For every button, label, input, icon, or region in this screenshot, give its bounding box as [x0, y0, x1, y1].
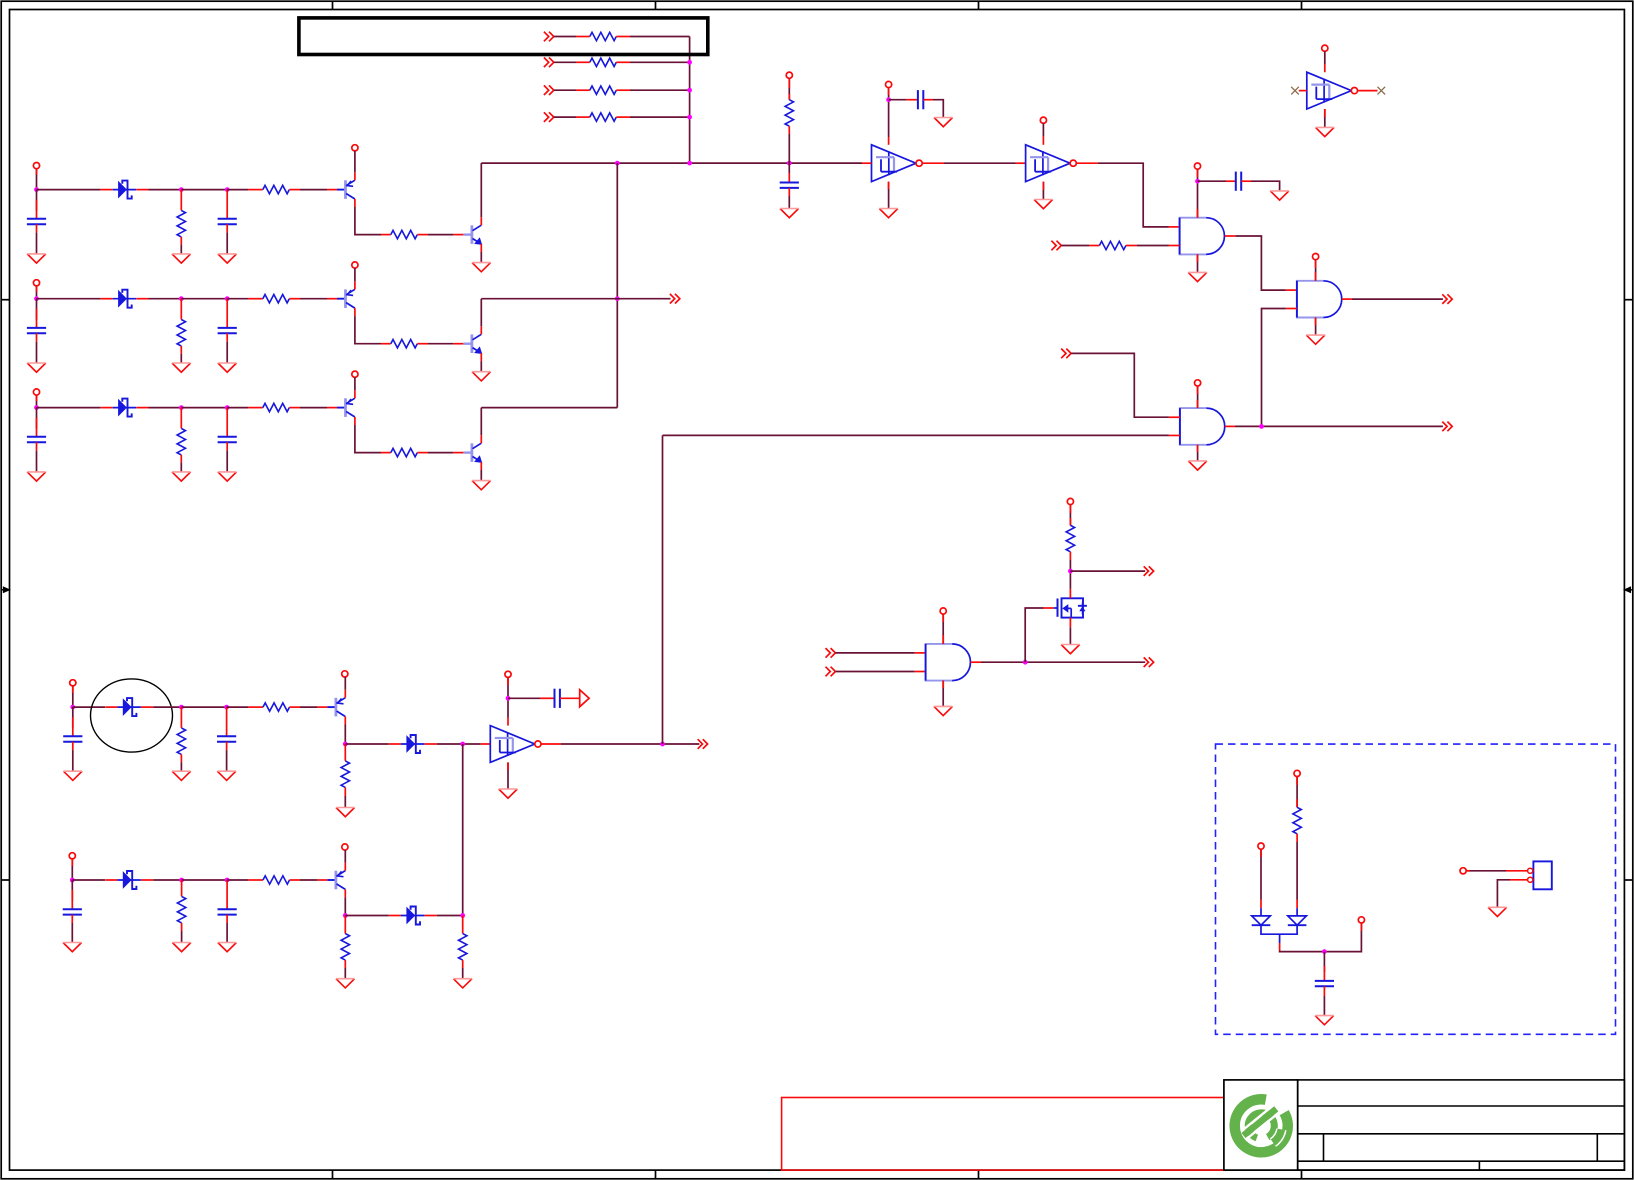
- wire Q3a emitter to power: [354, 377, 356, 390]
- net port output drain node: [1144, 566, 1154, 576]
- wire stage5 diode to node2: [153, 879, 181, 881]
- wire stage4 diode to node2: [153, 706, 181, 708]
- junction stage4 node2: [179, 705, 184, 710]
- wire stage3 power to line: [36, 395, 38, 408]
- wire stage4 series resistor to Q4 base: [300, 706, 317, 708]
- wire stage5 node down to cap: [71, 880, 73, 901]
- buffer U3 (schmitt): [490, 726, 541, 763]
- resistor R (stage1 base2): [391, 230, 418, 238]
- wire stage4 node3 to series resistor: [227, 706, 248, 708]
- resistor R (G1 pin2 series): [1099, 241, 1126, 249]
- wire stage1 input node down to cap: [36, 190, 38, 211]
- transistor Q6 (MOSFET): [1054, 589, 1087, 627]
- power port transistor Q1a: [352, 145, 358, 151]
- dashed option box: [1216, 744, 1616, 1034]
- capacitor C2 (stage3): [218, 437, 237, 442]
- zone tick left 1: [1, 299, 9, 301]
- zone tick bottom 1: [332, 1170, 334, 1179]
- power port G4: [940, 608, 946, 614]
- wire box power to resistor: [1296, 777, 1298, 808]
- wire pull-up resistor to main node: [788, 134, 790, 163]
- capacitor C (stage3 input): [27, 437, 46, 442]
- zone tick bottom 3: [978, 1170, 980, 1179]
- schottky diode D2 (stage4): [389, 735, 437, 753]
- wire G1 power node to cap: [1198, 180, 1227, 182]
- junction stage5 output node: [460, 913, 465, 918]
- wire stage1 node3 down to cap2: [226, 190, 228, 219]
- power port buffer U3: [505, 671, 511, 677]
- wire Q3b emitter to ground: [480, 470, 482, 481]
- capacitor C (G1 bypass): [1236, 172, 1241, 191]
- net port input G4 pin2: [826, 667, 836, 677]
- power port box resistor: [1294, 770, 1300, 776]
- logo graphic: [1235, 1099, 1288, 1152]
- resistor R (stage2 shunt): [180, 299, 182, 320]
- junction stage2 node2: [179, 296, 184, 301]
- wire stage4 D2 to buffer node: [437, 743, 481, 745]
- ground (stage2 cap2): [218, 363, 237, 372]
- centre arrow right edge: [1625, 587, 1633, 592]
- wire G3 power pin: [1197, 386, 1199, 408]
- wire stage1 node2 segment: [181, 189, 227, 191]
- power port buffer U4: [1322, 45, 1328, 51]
- wire stage2 input node down to cap: [36, 299, 38, 320]
- net port output U3: [698, 739, 708, 749]
- zone tick top 3: [978, 1, 980, 9]
- wire stage5 shunt resistor to ground: [181, 931, 183, 943]
- net port input arrow row2: [544, 58, 554, 68]
- wire stage5 series resistor to Q5 base: [300, 879, 317, 881]
- resistor R2 (input bank): [590, 58, 617, 66]
- wire Q2a emitter to power: [354, 268, 356, 281]
- wire Q2a collector down and right: [355, 316, 381, 344]
- wire stage5 cap2 to ground: [226, 923, 228, 943]
- wire G3 pin2 long from buffer node: [663, 434, 1169, 436]
- resistor R3 (input bank): [590, 86, 617, 94]
- wire row2 output to port: [481, 298, 670, 300]
- power port buffer U1: [886, 81, 892, 87]
- resistor R1 (input bank): [590, 32, 617, 40]
- wire stage3 node3 down to cap2: [226, 408, 228, 437]
- wire row2 to resistor: [554, 61, 576, 63]
- capacitor C2 (stage5): [218, 909, 237, 914]
- capacitor C (stage1 input): [27, 219, 46, 224]
- wire stage1 to transistor Q1b base: [428, 234, 453, 236]
- wire stage3 node2 segment: [181, 407, 227, 409]
- power port stage3 input: [33, 389, 39, 395]
- ground (Q1b emitter): [472, 263, 491, 272]
- centre arrow left edge: [1, 587, 9, 592]
- zone tick left 2: [1, 879, 9, 881]
- wire stage5 power to line: [71, 859, 73, 880]
- power port box diode D3: [1258, 843, 1264, 849]
- wire drain node to port: [1070, 570, 1145, 572]
- transistor Q3a (PNP): [327, 390, 355, 425]
- wire stage4 node3 down to cap2: [226, 707, 228, 736]
- junction bus row4: [687, 115, 692, 120]
- wire stage4 cap2 to ground: [226, 750, 228, 771]
- resistor R (stage5 node pulldown): [462, 916, 464, 934]
- junction U3 output node: [660, 742, 665, 747]
- wire stage4 cap to ground: [72, 750, 74, 771]
- wire stage1 cap2 to ground: [226, 233, 228, 254]
- net port input G4 pin1: [826, 648, 836, 658]
- schottky diode D (stage1): [101, 181, 149, 199]
- transistor Q3b (NPN): [453, 435, 482, 470]
- wire G1 pin2 resistor to gate: [1137, 245, 1169, 247]
- wire box cap to ground: [1323, 996, 1325, 1016]
- power port G1: [1194, 163, 1200, 169]
- wire row1 to resistor: [554, 36, 576, 38]
- junction stage1 input node: [34, 187, 39, 192]
- wire stage5 node to diode D2: [345, 915, 389, 917]
- wire G4 output to port: [971, 661, 981, 663]
- wire stage5 node pulldown to ground: [462, 968, 464, 979]
- AND gate G3: [1180, 408, 1225, 445]
- power port G2: [1313, 254, 1319, 260]
- junction main node at pullup: [787, 161, 792, 166]
- annotation circle around stage4 diode: [91, 679, 173, 752]
- junction bus row2: [687, 60, 692, 65]
- ground (stage1 input cap): [27, 254, 46, 263]
- net port input arrow row4: [544, 112, 554, 122]
- power port box node: [1358, 917, 1364, 923]
- wire U3 output node up to G3: [662, 435, 664, 744]
- power port MOSFET drain: [1067, 498, 1073, 504]
- resistor R (stage3 shunt): [180, 408, 182, 429]
- capacitor C6 (main node): [780, 183, 799, 188]
- junction stage1 node2: [179, 187, 184, 192]
- resistor R (stage5 series): [263, 876, 290, 884]
- wire stage2 to transistor Q2b base: [428, 343, 453, 345]
- wire U2 gnd pin: [1042, 182, 1044, 200]
- wire box node to cap: [1323, 952, 1325, 972]
- wire G2 power pin: [1315, 260, 1317, 281]
- junction stage5 emitter node: [343, 913, 348, 918]
- net flag circle (box): [1460, 868, 1466, 874]
- junction row2 output on bus: [615, 296, 620, 301]
- wire U2 power pin: [1042, 123, 1044, 136]
- wire stage2 power to line: [36, 286, 38, 299]
- schottky diode D (stage4): [105, 698, 153, 716]
- wire G2 gnd pin: [1315, 317, 1317, 335]
- zone tick right 1: [1624, 299, 1632, 301]
- transistor Q5 (PNP): [317, 863, 345, 898]
- schottky diode D (stage2): [101, 290, 149, 308]
- wire Q2b emitter to ground: [480, 361, 482, 372]
- capacitor C2 (stage2): [218, 328, 237, 333]
- junction stage2 input node: [34, 296, 39, 301]
- wire G1 output to G2 pin1: [1225, 235, 1236, 237]
- power port transistor Q3a: [352, 371, 358, 377]
- wire stage4 shunt resistor to ground: [180, 762, 182, 771]
- wire U1 bypass cap to ground: [933, 100, 943, 118]
- junction stage4 emitter node: [343, 742, 348, 747]
- ground (U1 bypass): [934, 118, 953, 127]
- capacitor C (U1 bypass): [918, 90, 923, 109]
- ground (stage1 cap2): [218, 254, 237, 263]
- power port stage4 input: [70, 680, 76, 686]
- ground (G4): [934, 706, 953, 715]
- wire resistor bank bus vertical: [689, 37, 691, 164]
- wire row3 to resistor: [554, 89, 576, 91]
- ground (stage5 pulldown): [336, 979, 355, 988]
- junction stage4 input node: [70, 705, 75, 710]
- wire stage5 D2 to node: [437, 915, 463, 917]
- junction bus row3: [687, 88, 692, 93]
- wire stage2 shunt resistor to ground: [180, 354, 182, 363]
- diode D4 (box right): [1288, 916, 1307, 925]
- no-connect X at U4 output: [1358, 90, 1378, 92]
- wire U1 power vertical: [888, 88, 890, 137]
- ground (stage5 node pulldown): [453, 979, 472, 988]
- power port buffer U2: [1040, 117, 1046, 123]
- resistor R (stage1 shunt): [180, 190, 182, 211]
- wire stage3 series resistor to transistor base: [300, 407, 327, 409]
- wire G1 power pin: [1197, 169, 1199, 218]
- wire U2 output to AND gate G1: [1077, 162, 1098, 164]
- wire Q1a emitter to power: [354, 151, 356, 172]
- power port Q5: [342, 844, 348, 850]
- ground (Q2b emitter): [472, 372, 491, 381]
- wire stage5 cap to ground: [71, 923, 73, 943]
- schottky diode D (stage3): [101, 399, 149, 417]
- wire diodes to cap node: [1280, 923, 1362, 952]
- zone tick top 1: [332, 1, 334, 9]
- ground (U1): [879, 209, 898, 218]
- wire stage2 cap to ground: [36, 342, 38, 363]
- ground (U3): [499, 789, 518, 798]
- capacitor C (stage5 input): [63, 909, 82, 914]
- wire G4 power pin: [942, 614, 944, 644]
- zone tick right 2: [1624, 879, 1632, 881]
- junction stage4 node3: [224, 705, 229, 710]
- capacitor C2 (stage1): [218, 219, 237, 224]
- net port input G3 pin1: [1061, 349, 1071, 359]
- no-connect X at U4 input: [1291, 87, 1299, 95]
- transistor Q2a (PNP): [327, 281, 355, 316]
- schottky diode D2 (stage5): [389, 907, 437, 925]
- ground (main node cap): [780, 209, 799, 218]
- wire resistor R2 to bus: [630, 61, 690, 63]
- wire U1 power node to cap: [889, 99, 907, 101]
- wire row4 to resistor: [554, 116, 576, 118]
- ground (stage2 input cap): [27, 363, 46, 372]
- resistor R (MOSFET drain pull-up): [1066, 525, 1074, 552]
- wire stage2 node3 down to cap2: [226, 299, 228, 328]
- wire MOSFET power to resistor: [1069, 505, 1071, 526]
- capacitor C (stage4 input): [63, 736, 82, 741]
- junction stage1 node3: [225, 187, 230, 192]
- wire stage4 node down to cap: [72, 707, 74, 728]
- ground (stage4 shunt): [172, 771, 191, 780]
- transistor Q2b (NPN): [453, 326, 482, 361]
- junction G1 power node: [1195, 179, 1200, 184]
- net port input arrow row3: [544, 85, 554, 95]
- resistor R (stage3 series): [263, 403, 290, 411]
- wire capacitor C6 to ground: [788, 196, 790, 209]
- power port Q4: [342, 671, 348, 677]
- net port output G2: [1442, 294, 1452, 304]
- ground (stage1 shunt resistor): [172, 254, 191, 263]
- zone tick top 4: [1301, 1, 1303, 9]
- wire stage3 to transistor Q3b base: [428, 452, 453, 454]
- zone tick top 2: [655, 1, 657, 9]
- wire resistor to drain node: [1069, 560, 1071, 589]
- wire connector pin2 to ground: [1510, 879, 1528, 881]
- ground (stage3 cap2): [218, 472, 237, 481]
- wire Q3b collector to output: [480, 408, 482, 436]
- wire vertical stage4-stage5 node: [462, 744, 464, 916]
- schottky diode D (stage5): [105, 871, 153, 889]
- AND gate G1: [1180, 218, 1225, 255]
- wire Q4 collector down to node: [344, 725, 346, 745]
- wire U3 power node to cap: [508, 697, 540, 699]
- wire U1 output to U2 input: [922, 162, 944, 164]
- wire stage5 pulldown to ground: [344, 968, 346, 979]
- wire box power to diode D3: [1260, 849, 1262, 899]
- wire stage2 node2 segment: [181, 298, 227, 300]
- junction main node at bus x689: [687, 161, 692, 166]
- ground (stage3 shunt resistor): [172, 472, 191, 481]
- wire resistor R1 to bus: [630, 36, 690, 38]
- wire stage1 series resistor to transistor base: [300, 189, 327, 191]
- wire U4 gnd pin: [1324, 109, 1326, 127]
- wire stage3 cap2 to ground: [226, 451, 228, 472]
- ground (stage4 input cap): [64, 771, 83, 780]
- wire stage5 node3 down to cap2: [226, 880, 228, 909]
- wire Q5 collector down to node: [344, 897, 346, 915]
- logo cell border: [1224, 1080, 1298, 1170]
- wire stage2 node3 to series resistor: [227, 298, 248, 300]
- title block table: [1298, 1080, 1625, 1170]
- wire stage3 node3 to series resistor: [227, 407, 248, 409]
- wire vertical bus x617: [616, 163, 618, 408]
- transistor Q1b (NPN): [453, 217, 482, 252]
- transistor Q4 (PNP): [317, 690, 345, 725]
- resistor R (stage5 shunt): [181, 880, 183, 896]
- capacitor C (U3 bypass): [555, 689, 560, 708]
- wire resistor R3 to bus: [630, 89, 690, 91]
- wire U4 power pin: [1324, 51, 1326, 64]
- wire pull-up power to resistor: [788, 78, 790, 99]
- wire stage3 input node to diode: [37, 407, 101, 409]
- ground (U2): [1034, 200, 1053, 209]
- wire stage1 power to line: [36, 169, 38, 190]
- resistor R4 (input bank): [590, 113, 617, 121]
- wire Q2b collector to output: [480, 299, 482, 327]
- junction stage5 node3: [225, 878, 230, 883]
- wire row3 output: [481, 407, 617, 409]
- wire box resistor to diode D4: [1296, 842, 1298, 900]
- wire G3 pin1 from port: [1071, 353, 1169, 417]
- ground (stage5 shunt): [172, 943, 191, 952]
- buffer U4 (unused schmitt): [1307, 72, 1358, 109]
- net port input arrow row1: [544, 32, 554, 42]
- wire stage2 input node to diode: [37, 298, 101, 300]
- resistor R (box): [1293, 807, 1301, 834]
- buffer U2 (schmitt): [1026, 145, 1077, 182]
- wire G3 output to port: [1225, 425, 1235, 427]
- ground (stage4 pulldown): [336, 808, 355, 817]
- wire Q1a collector down and right: [355, 207, 381, 235]
- diode D3 (box left): [1252, 916, 1271, 925]
- wire stage4 pulldown to ground: [344, 796, 346, 808]
- wire main node horizontal: [481, 162, 862, 164]
- junction stage3 node3: [225, 405, 230, 410]
- resistor R (stage2 base2): [391, 340, 418, 348]
- zone tick bottom 2: [655, 1170, 657, 1179]
- wire stage1 diode to node2: [149, 189, 182, 191]
- buffer U1 (schmitt): [872, 145, 923, 182]
- wire stage3 diode to node2: [149, 407, 182, 409]
- transistor Q1a (PNP): [327, 172, 355, 207]
- wire stage1 cap to ground: [36, 233, 38, 254]
- power port stage2 input: [33, 280, 39, 286]
- resistor R (stage1 series): [263, 185, 290, 193]
- power port stage1 input: [33, 163, 39, 169]
- wire Q5 emitter to power: [344, 850, 346, 863]
- wire G2 output to port: [1342, 298, 1352, 300]
- junction stage3 input node: [34, 405, 39, 410]
- wire stage3 cap to ground: [36, 451, 38, 472]
- junction stage5 input node: [70, 878, 75, 883]
- ground (MOSFET source): [1061, 645, 1080, 654]
- wire stage4 power to line: [72, 686, 74, 707]
- wire MOSFET source to ground: [1069, 627, 1071, 644]
- wire stage5 node2 segment: [182, 879, 228, 881]
- wire G4 gnd pin: [942, 681, 944, 707]
- wire stage5 node to diode: [72, 879, 105, 881]
- junction stage4 buffer node: [460, 742, 465, 747]
- wire stage4 node to diode: [73, 706, 105, 708]
- wire G1 bypass cap to ground: [1251, 181, 1280, 191]
- ground (Q3b emitter): [472, 481, 491, 490]
- power port stage5 input: [69, 853, 75, 859]
- wire Q3a collector down and right: [355, 425, 381, 453]
- wire joining diode cathodes: [1261, 925, 1297, 943]
- capacitor C (stage2 input): [27, 328, 46, 333]
- wire stage4 node2 segment: [181, 706, 226, 708]
- wire stage2 cap2 to ground: [226, 342, 228, 363]
- wire stage1 shunt resistor to ground: [180, 245, 182, 254]
- resistor R (stage4 series): [263, 703, 290, 711]
- junction stage3 node2: [179, 405, 184, 410]
- zone tick bottom 4: [1301, 1170, 1303, 1179]
- junction U1 power node: [886, 97, 891, 102]
- wire G3 gnd pin: [1197, 445, 1199, 461]
- power port (pull-up): [786, 72, 792, 78]
- wire Q4 emitter to power: [344, 677, 346, 690]
- annotation highlight box: [299, 18, 708, 55]
- ground (box cap): [1315, 1016, 1334, 1025]
- wire G4 pin2 from port: [836, 671, 915, 673]
- junction main node at bus x617: [615, 161, 620, 166]
- title note red box: [782, 1098, 1225, 1171]
- capacitor C (box): [1315, 981, 1334, 986]
- ground (stage5 input cap): [63, 943, 82, 952]
- wire stage4 node to diode D2: [345, 743, 389, 745]
- net port output G3: [1442, 422, 1452, 432]
- wire U1 gnd pin: [888, 182, 890, 209]
- resistor R (stage4 pulldown): [344, 744, 346, 761]
- ground (U4): [1316, 127, 1335, 136]
- resistor R (stage3 base2): [391, 448, 418, 456]
- ground (connector): [1488, 907, 1507, 916]
- AND gate G4: [926, 644, 971, 681]
- wire stage1 node3 to series resistor: [227, 189, 248, 191]
- net port output row2: [670, 294, 680, 304]
